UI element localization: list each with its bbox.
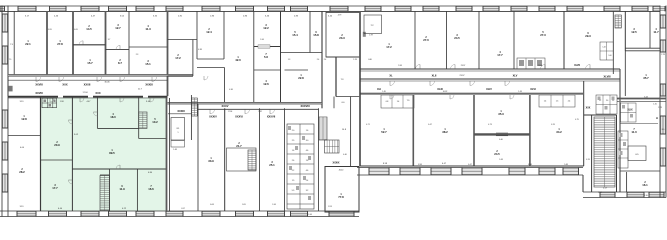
- svg-text:1.6: 1.6: [306, 160, 309, 162]
- svg-text:5.9: 5.9: [292, 190, 295, 192]
- svg-text:1.4: 1.4: [397, 101, 400, 103]
- green wall x137.4: [136, 169, 138, 211]
- right col band: [617, 99, 666, 102]
- partition y46.5: [254, 45, 281, 48]
- svg-text:10.32: 10.32: [443, 91, 448, 93]
- corridor line y80: [8, 79, 168, 81]
- svg-text:2.78: 2.78: [658, 107, 662, 109]
- svg-text:29.3: 29.3: [585, 34, 591, 38]
- small stair b: [325, 140, 340, 153]
- dim 23.97: [459, 75, 465, 77]
- right col narrow: [600, 42, 625, 96]
- small stair a: [319, 117, 327, 140]
- svg-text:14.5: 14.5: [86, 27, 92, 31]
- svg-text:1.44: 1.44: [602, 47, 605, 49]
- mid block lower wall: [168, 102, 323, 104]
- room 11.3: [145, 25, 151, 31]
- svg-text:XXX: XXX: [62, 82, 67, 86]
- svg-text:2.2: 2.2: [292, 170, 295, 172]
- room 12.4 box: [197, 11, 224, 59]
- dim 30.06: [104, 82, 110, 84]
- big room wall x413.3: [412, 95, 414, 166]
- svg-text:4.40: 4.40: [343, 154, 347, 156]
- room 16.1: [642, 181, 648, 187]
- wall x322: [321, 11, 323, 108]
- svg-text:5.48: 5.48: [564, 164, 568, 166]
- XXXVIII label: [300, 104, 309, 108]
- svg-text:46.40: 46.40: [339, 170, 344, 172]
- left col dims: [20, 101, 25, 208]
- annex dims: [328, 170, 343, 209]
- green highlighted unit: [41, 98, 167, 212]
- svg-text:2.44: 2.44: [308, 214, 312, 216]
- svg-text:8.98: 8.98: [418, 164, 422, 166]
- svg-text:XLVI: XLVI: [530, 87, 536, 91]
- svg-text:3.2: 3.2: [306, 190, 309, 192]
- room 28.2: [19, 168, 25, 174]
- svg-text:XXXIII: XXXIII: [177, 109, 185, 113]
- XXXIX label: [332, 162, 339, 165]
- XXXVI label: [235, 115, 243, 119]
- svg-text:XLIV: XLIV: [486, 87, 492, 91]
- divider y47 right: [129, 46, 168, 48]
- big room wall x529.9: [529, 95, 531, 166]
- svg-text:4.38: 4.38: [198, 49, 202, 51]
- svg-text:4.6: 4.6: [306, 150, 309, 152]
- svg-text:24.5: 24.5: [494, 152, 500, 156]
- svg-text:0.80: 0.80: [368, 59, 372, 61]
- room 23.3: [338, 15, 345, 41]
- room 21.7 inner box: [227, 148, 257, 171]
- svg-text:1.3: 1.3: [612, 100, 614, 102]
- room 12.2: [263, 24, 269, 30]
- XL label: [389, 74, 393, 78]
- room 27.3: [540, 31, 546, 37]
- room 7.2: [370, 25, 374, 27]
- XLIII label: [437, 87, 443, 91]
- svg-text:LI: LI: [656, 117, 658, 120]
- XXXIV label: [209, 115, 217, 119]
- svg-text:XXX: XXX: [95, 91, 100, 95]
- svg-text:2.44: 2.44: [260, 39, 264, 41]
- svg-text:1: 1: [178, 132, 179, 134]
- svg-text:3.7: 3.7: [108, 39, 111, 41]
- svg-text:1.2: 1.2: [599, 100, 601, 102]
- svg-text:22.1: 22.1: [25, 42, 31, 46]
- svg-text:17.7: 17.7: [52, 186, 58, 190]
- extra dims scatter: [9, 29, 665, 216]
- XLIX cells: [621, 103, 637, 122]
- corridor XL walls: [360, 69, 620, 71]
- corridor turn wall: [197, 68, 225, 103]
- wall x479: [478, 11, 480, 69]
- svg-text:8.0: 8.0: [662, 129, 665, 131]
- XXXIII lower wall: [168, 113, 191, 115]
- svg-text:12.8: 12.8: [21, 117, 27, 121]
- shaft hatch: [615, 15, 621, 28]
- sub rooms 34.2 top: [539, 95, 575, 107]
- svg-text:3.53: 3.53: [328, 206, 332, 208]
- svg-text:28.2: 28.2: [19, 170, 25, 174]
- svg-text:8.7: 8.7: [118, 61, 122, 65]
- room 14.5: [86, 25, 92, 31]
- svg-text:25.1: 25.1: [269, 163, 275, 167]
- svg-text:XXXVII: XXXVII: [267, 115, 276, 119]
- svg-text:XXXII: XXXII: [84, 82, 91, 86]
- dim 17.34: [82, 92, 88, 94]
- room 21.7: [236, 142, 242, 148]
- room 17.2: [175, 54, 181, 60]
- green divider y160: [41, 159, 73, 161]
- door arcs right block: [390, 65, 590, 100]
- green room 11.9: [119, 185, 125, 191]
- bottom wall under annex: [324, 211, 359, 217]
- room 16.1 walls: [618, 131, 660, 192]
- svg-text:1.28: 1.28: [353, 59, 357, 61]
- svg-text:10.2: 10.2: [152, 120, 158, 124]
- box 6.5: [628, 146, 646, 161]
- XLIX label: [627, 109, 633, 112]
- svg-text:20.9: 20.9: [54, 143, 60, 147]
- green unit top wall: [8, 96, 168, 99]
- svg-text:2.78: 2.78: [661, 54, 665, 56]
- room 38.2: [442, 128, 448, 134]
- svg-text:8.98: 8.98: [528, 164, 532, 166]
- svg-text:15.4: 15.4: [292, 33, 298, 37]
- svg-text:2.6: 2.6: [292, 160, 295, 162]
- svg-text:27.0: 27.0: [423, 38, 429, 42]
- svg-text:4.36: 4.36: [229, 89, 233, 91]
- divider y70: [254, 69, 281, 71]
- divider x310: [309, 11, 311, 53]
- svg-text:6.40: 6.40: [499, 139, 503, 141]
- svg-text:77.8: 77.8: [338, 195, 344, 199]
- room right sliver: [317, 59, 320, 61]
- big room wall x474: [473, 95, 475, 166]
- green room 16.6: [148, 185, 154, 191]
- top exterior wall with windows: [0, 6, 665, 11]
- room divider 35.3/24.5: [474, 133, 530, 136]
- svg-text:1.68: 1.68: [499, 159, 503, 161]
- green wall x72.4: [71, 98, 73, 212]
- room 15.7: [87, 59, 93, 65]
- divider y52.5: [281, 52, 323, 54]
- svg-text:2.9: 2.9: [292, 140, 295, 142]
- XLII label: [432, 74, 437, 78]
- green room 10.2: [152, 118, 158, 124]
- svg-text:1.4: 1.4: [544, 101, 547, 103]
- svg-text:22.8: 22.8: [298, 76, 304, 80]
- stair tower walls: [584, 115, 617, 192]
- svg-text:1.20: 1.20: [653, 104, 657, 106]
- room 35.7: [643, 74, 649, 80]
- svg-text:13.44: 13.44: [538, 65, 543, 67]
- svg-text:6.47: 6.47: [468, 164, 472, 166]
- room 22.1: [25, 40, 31, 46]
- XLVII label: [574, 64, 580, 67]
- svg-text:XXVIII: XXVIII: [35, 82, 43, 86]
- green room 18.0 walls: [97, 98, 138, 129]
- svg-text:XLII: XLII: [432, 74, 437, 78]
- svg-text:6.76: 6.76: [586, 159, 590, 161]
- wall x642.6: [649, 11, 651, 48]
- svg-text:XXX: XXX: [586, 107, 591, 110]
- svg-text:89.5: 89.5: [109, 151, 115, 155]
- green stair wall: [109, 169, 111, 211]
- svg-text:30.06: 30.06: [104, 82, 110, 84]
- svg-text:1.6: 1.6: [306, 130, 309, 132]
- svg-text:XLI: XLI: [377, 87, 381, 91]
- XLVII cluster: [517, 58, 545, 69]
- room 17.7r: [497, 51, 503, 57]
- svg-text:35.3: 35.3: [498, 112, 504, 116]
- svg-text:XXVIII: XXVIII: [35, 91, 43, 95]
- wall x129: [128, 11, 130, 76]
- room 33.9: [208, 157, 214, 163]
- svg-text:4.79: 4.79: [338, 15, 342, 17]
- room 27.0: [423, 36, 429, 42]
- left col right wall: [40, 98, 42, 212]
- svg-text:12.7: 12.7: [115, 26, 121, 30]
- room 17.2 walls: [168, 40, 198, 77]
- room 35.3: [498, 110, 504, 116]
- tiny rooms cluster: [287, 124, 314, 209]
- svg-text:4.71: 4.71: [366, 124, 370, 126]
- svg-text:12.5: 12.5: [631, 30, 637, 34]
- svg-text:XXXVIII: XXXVIII: [300, 104, 309, 108]
- room 24.5t: [454, 34, 460, 40]
- svg-text:6.47: 6.47: [428, 124, 432, 126]
- room 8.7: [118, 59, 122, 65]
- room 12.6: [263, 80, 269, 86]
- wall x197: [196, 11, 198, 59]
- wall x73: [72, 11, 74, 76]
- room 12.4: [206, 28, 212, 34]
- green stair top wall: [100, 174, 110, 176]
- wall x280.5: [280, 11, 282, 102]
- svg-text:23.3: 23.3: [339, 36, 345, 40]
- svg-text:12.4: 12.4: [206, 30, 212, 34]
- svg-text:16.1: 16.1: [642, 183, 648, 187]
- svg-text:15.7: 15.7: [87, 61, 93, 65]
- annex room 77.8: [338, 193, 344, 199]
- svg-text:2.44: 2.44: [272, 204, 276, 206]
- svg-text:XXXIII: XXXIII: [145, 82, 153, 86]
- divider y49.4: [106, 48, 130, 50]
- second corridor wall: [360, 93, 583, 95]
- svg-text:1.43: 1.43: [518, 91, 522, 93]
- dim 2.57: [603, 188, 608, 190]
- svg-text:12.2: 12.2: [263, 26, 269, 30]
- svg-text:6.08: 6.08: [210, 204, 214, 206]
- XXXIII label: [145, 82, 153, 86]
- svg-text:3.05: 3.05: [242, 204, 246, 206]
- room 7.2 box: [364, 15, 382, 34]
- green room 18.0: [110, 113, 116, 119]
- room 17.2r: [386, 43, 392, 49]
- svg-text:1.99: 1.99: [369, 35, 373, 37]
- green dims: [58, 101, 153, 210]
- bottom exterior wall right block: [357, 168, 583, 176]
- svg-text:11.7: 11.7: [653, 30, 659, 34]
- XLIV label: [486, 87, 492, 91]
- svg-text:24.5: 24.5: [454, 36, 460, 40]
- big rooms bottom wall: [360, 165, 584, 167]
- svg-text:5.98: 5.98: [398, 65, 402, 67]
- green main staircase: [100, 176, 110, 211]
- XXXVII label: [267, 115, 276, 119]
- svg-text:2.4: 2.4: [324, 59, 327, 61]
- svg-text:52.7: 52.7: [381, 130, 387, 134]
- corridor wall gray: [8, 74, 193, 76]
- left col divider: [8, 135, 41, 137]
- svg-text:2.4: 2.4: [568, 101, 571, 103]
- svg-text:XLIX: XLIX: [627, 109, 633, 112]
- svg-text:15.8: 15.8: [313, 33, 319, 37]
- svg-text:2.0: 2.0: [292, 130, 295, 132]
- svg-text:3.97: 3.97: [598, 192, 602, 194]
- corridor XXXIII vertical: [170, 98, 199, 211]
- stair tower ladder: [594, 117, 615, 187]
- svg-text:XXXV: XXXV: [222, 104, 229, 108]
- far right bottom wall: [618, 192, 666, 198]
- room 34.2: [556, 128, 562, 134]
- LI label: [586, 107, 659, 121]
- stair tower step wall: [582, 175, 584, 192]
- room 5.6: [264, 53, 268, 59]
- room 22.8: [298, 74, 304, 80]
- bottom dims right: [383, 163, 447, 165]
- door arcs mid: [204, 76, 275, 114]
- top dims row: [25, 16, 333, 18]
- svg-text:1.9: 1.9: [292, 180, 295, 182]
- svg-text:6.76: 6.76: [551, 124, 555, 126]
- svg-text:5.6: 5.6: [264, 55, 268, 59]
- green room 20.9: [54, 141, 60, 147]
- left block right wall: [333, 97, 335, 109]
- wall x318.5: [318, 108, 320, 211]
- room 42.0: [235, 56, 241, 62]
- svg-text:6.55: 6.55: [48, 29, 52, 31]
- svg-text:17.2: 17.2: [386, 45, 392, 49]
- right block left wall: [336, 32, 366, 97]
- svg-text:1.48: 1.48: [173, 149, 177, 151]
- XLV label: [513, 74, 518, 78]
- svg-text:7.9: 7.9: [9, 59, 12, 61]
- annex wall: [325, 167, 359, 213]
- svg-text:17.7: 17.7: [497, 53, 503, 57]
- svg-text:4.75: 4.75: [575, 119, 579, 121]
- svg-text:11.9: 11.9: [119, 187, 125, 191]
- dim 6.44: [644, 96, 648, 98]
- svg-text:27.8: 27.8: [57, 42, 63, 46]
- room 25.1: [269, 161, 275, 167]
- green wc cluster: [42, 98, 57, 108]
- right col mid divider: [620, 123, 658, 125]
- room 12.8: [21, 115, 27, 121]
- svg-text:27.3: 27.3: [540, 33, 546, 37]
- wall x614: [612, 11, 614, 74]
- stair tower bottom wall: [583, 192, 618, 198]
- green mid wall y169: [72, 168, 166, 170]
- wall x620: [620, 11, 625, 101]
- wall x105.5: [105, 11, 107, 76]
- corridor ladder: [191, 95, 197, 140]
- svg-text:17.2: 17.2: [175, 56, 181, 60]
- svg-text:12.6: 12.6: [263, 82, 269, 86]
- green divider y138.5: [139, 138, 167, 140]
- svg-text:11.0: 11.0: [631, 130, 637, 134]
- svg-text:17.34: 17.34: [82, 92, 88, 94]
- room 23.3 box: [326, 12, 360, 57]
- svg-text:2.10: 2.10: [644, 195, 648, 197]
- svg-text:XXXIX: XXXIX: [332, 162, 339, 165]
- wall x259.5: [259, 108, 261, 211]
- left exterior wall with windows: [2, 6, 8, 217]
- sub rooms 52.7 top: [381, 95, 414, 108]
- room 15.1: [145, 60, 151, 66]
- svg-text:2.0: 2.0: [606, 100, 608, 102]
- divider y45.5: [73, 44, 106, 46]
- svg-text:1.3: 1.3: [288, 59, 291, 61]
- corridor XL lower: [360, 79, 620, 81]
- XLVI label: [530, 87, 536, 91]
- room 11.7: [653, 28, 659, 34]
- svg-text:XLV: XLV: [513, 74, 518, 78]
- green right wall: [166, 98, 168, 212]
- svg-text:42.0: 42.0: [235, 58, 241, 62]
- svg-text:XL: XL: [389, 74, 393, 78]
- svg-text:0.97: 0.97: [181, 208, 185, 210]
- room 15.8: [285, 31, 320, 70]
- svg-text:XLVIII: XLVIII: [603, 75, 610, 79]
- svg-text:21.7: 21.7: [236, 144, 242, 148]
- wall x564: [563, 11, 565, 69]
- wall x514: [513, 11, 515, 69]
- door arcs green: [68, 112, 120, 184]
- room 12.7: [115, 24, 121, 30]
- svg-text:15.1: 15.1: [145, 62, 151, 66]
- right wall x360: [359, 11, 361, 166]
- far right col wall: [619, 102, 621, 192]
- svg-text:1.06: 1.06: [608, 55, 611, 57]
- tiny cluster right mid: [596, 95, 617, 114]
- wall x446.5: [446, 11, 448, 69]
- big room wall x583.7: [583, 81, 585, 166]
- right dims: [653, 104, 662, 110]
- row2 XXX: [95, 91, 100, 95]
- XXXIII label: [177, 109, 185, 113]
- green room 89.5: [109, 149, 115, 155]
- svg-text:38.2: 38.2: [442, 130, 448, 134]
- room 21.7 ladder: [248, 150, 256, 170]
- wall x224.7: [224, 108, 226, 211]
- room 52.7: [381, 128, 387, 134]
- svg-text:1.45: 1.45: [382, 91, 386, 93]
- svg-text:1.6: 1.6: [292, 150, 295, 152]
- room 27.8: [57, 40, 63, 46]
- XLI label: [377, 87, 381, 91]
- svg-text:23.97: 23.97: [459, 75, 465, 77]
- dim 22.7: [138, 89, 143, 91]
- svg-text:23.97: 23.97: [461, 65, 466, 67]
- svg-text:2.3: 2.3: [136, 54, 139, 56]
- svg-text:18.0: 18.0: [110, 115, 116, 119]
- bottom exterior wall left block: [0, 211, 324, 217]
- XXVIII label: [35, 82, 43, 86]
- door arcs left block: [36, 41, 157, 82]
- svg-text:4.73: 4.73: [488, 124, 492, 126]
